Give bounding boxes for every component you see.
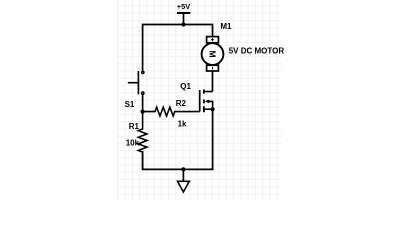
svg-text:S1: S1 [125,100,135,109]
drain lead [204,91,213,93]
grid background [117,0,281,200]
source lead [204,108,213,110]
resistor R1 10k (vertical) [126,112,147,170]
wire: bottom rail with corners [143,109,213,169]
svg-text:R1: R1 [129,122,140,131]
wire: motor to transistor drain [212,71,214,92]
node: junction S1/R1/R2 [141,110,145,114]
+5V power symbol [177,2,191,24]
svg-text:M1: M1 [220,22,232,31]
node: +5V junction dot [181,22,185,26]
svg-text:R2: R2 [176,99,187,108]
svg-text:10k: 10k [126,138,140,147]
svg-text:1k: 1k [178,120,187,129]
wire: top rail with left and right bends [143,25,213,71]
body arrow [205,100,209,104]
svg-text:5V DC MOTOR: 5V DC MOTOR [229,47,285,56]
svg-text:+5V: +5V [177,2,191,11]
node: ground junction dot [181,167,185,171]
wire: switch to junction [142,95,144,112]
resistor R2 1k (horizontal) [143,99,200,129]
switch S1 (pushbutton) [125,71,144,109]
channel stubs [203,90,205,94]
ground [178,169,190,192]
motor M1 [202,22,285,71]
svg-text:Q1: Q1 [180,82,191,91]
gate bar [199,90,201,112]
svg-text:M: M [208,51,218,58]
transistor Q1 (N-MOSFET) [180,82,214,112]
